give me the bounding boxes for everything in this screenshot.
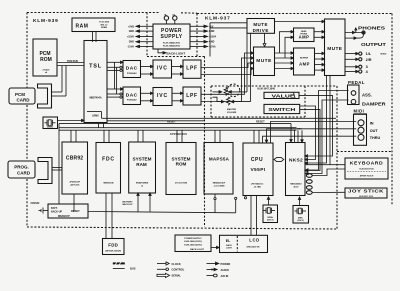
svg-text:CR2032: CR2032 (31, 202, 40, 205)
svg-text:LPF: LPF (186, 66, 198, 72)
svg-text:(OSC2): (OSC2) (297, 220, 304, 222)
svg-text:KLM-1616/17/18: KLM-1616/17/18 (359, 168, 373, 170)
svg-text:SUPPLY: SUPPLY (161, 34, 183, 40)
svg-text:ASS.: ASS. (362, 92, 372, 97)
svg-text:RESET: RESET (167, 119, 176, 123)
svg-text:M62021FP: M62021FP (58, 215, 70, 218)
svg-text:BACK-LIGHT: BACK-LIGHT (167, 51, 186, 55)
svg-text:TSL: TSL (89, 64, 102, 70)
svg-text:(OSC1): (OSC1) (267, 219, 274, 221)
svg-text:MB654205U: MB654205U (290, 183, 302, 186)
svg-text:POWER SUPPLY: POWER SUPPLY (184, 238, 202, 240)
svg-text:BACK-UP: BACK-UP (122, 203, 133, 206)
svg-text:MB87404A: MB87404A (89, 97, 101, 100)
svg-text:KEYBOARD: KEYBOARD (350, 160, 384, 165)
svg-text:MUTE: MUTE (253, 22, 268, 27)
svg-text:VALUE: VALUE (272, 93, 295, 98)
svg-text:-10-7EB: -10-7EB (253, 187, 261, 189)
svg-text:LRMX: LRMX (92, 114, 99, 117)
svg-text:KLM-1649 (220V): KLM-1649 (220V) (184, 243, 202, 246)
svg-text:MB89311B: MB89311B (103, 182, 114, 184)
svg-text:PCM69AU: PCM69AU (127, 98, 137, 101)
svg-text:PCM69AU: PCM69AU (127, 72, 137, 75)
svg-text:PCM: PCM (15, 92, 25, 97)
svg-text:AFTER TOUCH: AFTER TOUCH (360, 175, 374, 178)
svg-text:MB654201UF: MB654201UF (213, 182, 226, 185)
svg-text:CARD: CARD (17, 170, 31, 175)
svg-text:KLM-2011,1919: KLM-2011,1919 (359, 196, 373, 198)
svg-text:MAPS5A: MAPS5A (209, 157, 230, 162)
svg-text:KLM-1647,1648: KLM-1647,1648 (258, 88, 276, 91)
svg-text:uPD70433GC: uPD70433GC (251, 183, 264, 186)
svg-text:MUTE: MUTE (327, 46, 343, 52)
svg-text:KLM-937: KLM-937 (205, 15, 231, 21)
svg-text:BSL 12: BSL 12 (101, 24, 109, 26)
svg-text:GND: GND (209, 30, 215, 33)
svg-text:IN: IN (370, 121, 374, 125)
svg-text:ROM: ROM (176, 162, 187, 167)
svg-text:BUS: BUS (130, 267, 136, 271)
svg-text:KLM-1648 (120V): KLM-1648 (120V) (184, 240, 202, 243)
svg-text:PEDAL: PEDAL (348, 80, 365, 85)
svg-text:3: 3 (366, 65, 368, 69)
svg-text:GND: GND (129, 30, 135, 33)
svg-text:DMC50371N: DMC50371N (247, 246, 260, 248)
svg-text:+5VB: +5VB (128, 25, 134, 28)
svg-text:DAC: DAC (126, 92, 138, 98)
svg-text:POWER: POWER (221, 262, 231, 266)
svg-text:BACK-LIGHT: BACK-LIGHT (190, 248, 204, 251)
svg-text:BATTERY: BATTERY (122, 200, 133, 203)
svg-text:MASTER: MASTER (227, 108, 237, 111)
svg-text:KLM-1649(220V): KLM-1649(220V) (163, 45, 180, 48)
svg-text:2/R: 2/R (366, 58, 372, 62)
svg-text:PHONES: PHONES (358, 25, 385, 30)
svg-text:CPU: CPU (251, 157, 263, 163)
svg-text:-A078-306: -A078-306 (70, 184, 80, 187)
svg-text:-15VA: -15VA (127, 46, 134, 49)
svg-text:CBR92: CBR92 (66, 156, 83, 162)
svg-text:MIDI: MIDI (354, 109, 365, 114)
svg-text:MONO: MONO (381, 54, 387, 56)
svg-text:BACK: BACK (226, 244, 232, 247)
svg-text:27C101 ROM: 27C101 ROM (175, 183, 188, 185)
svg-text:RESET: RESET (256, 119, 265, 123)
svg-text:RESET: RESET (71, 209, 80, 213)
svg-text:AMP: AMP (299, 61, 310, 66)
svg-text:-G-101-BND: -G-101-BND (213, 186, 225, 188)
svg-text:AMP: AMP (299, 35, 310, 40)
svg-text:(MF355F-3290UF): (MF355F-3290UF) (105, 250, 121, 252)
svg-text:GND: GND (209, 41, 215, 44)
svg-text:1/L: 1/L (366, 52, 372, 56)
svg-text:LIGHT: LIGHT (226, 247, 233, 249)
svg-text:-15VA: -15VA (209, 46, 216, 49)
svg-text:OUTPUT: OUTPUT (361, 42, 386, 47)
svg-text:DAC: DAC (126, 66, 138, 72)
svg-text:NKS2: NKS2 (289, 158, 303, 164)
svg-text:IVC: IVC (157, 66, 168, 72)
svg-text:SRAM: SRAM (101, 26, 107, 29)
svg-text:CONTROL: CONTROL (172, 268, 185, 272)
svg-text:+15VA: +15VA (127, 36, 134, 39)
svg-text:+15VA: +15VA (209, 36, 216, 39)
svg-text:CLOCK: CLOCK (172, 262, 181, 266)
svg-text:CARD: CARD (17, 98, 31, 103)
svg-text:PROG.: PROG. (14, 165, 29, 170)
svg-text:20MHz: 20MHz (47, 127, 53, 129)
svg-text:SWITCH: SWITCH (268, 107, 296, 113)
svg-text:BUFFER: BUFFER (300, 58, 309, 60)
svg-text:LCD: LCD (249, 238, 259, 243)
svg-text:JOY STICK: JOY STICK (348, 189, 384, 194)
svg-text:SYSTEM: SYSTEM (133, 157, 152, 162)
svg-text:PCM BUS: PCM BUS (67, 60, 78, 63)
svg-text:LPF: LPF (186, 93, 198, 99)
svg-text:FDC: FDC (102, 157, 115, 163)
svg-text:IVC: IVC (157, 93, 168, 99)
svg-text:+5V: +5V (209, 25, 214, 28)
svg-text:SERIAL: SERIAL (172, 274, 182, 278)
svg-text:uPD65012F: uPD65012F (69, 182, 81, 184)
svg-text:KLM-1648(120V): KLM-1648(120V) (163, 42, 180, 45)
svg-text:THRU: THRU (370, 136, 381, 140)
svg-text:A/D IN: A/D IN (221, 274, 229, 278)
svg-text:POWER: POWER (161, 28, 182, 34)
svg-text:FDD: FDD (108, 242, 118, 247)
svg-text:MIDI: MIDI (297, 128, 302, 130)
svg-text:EL: EL (226, 239, 231, 243)
svg-text:AUDIO: AUDIO (221, 268, 229, 272)
svg-text:MUTE: MUTE (256, 58, 272, 64)
svg-text:RAM: RAM (76, 24, 89, 30)
svg-text:V55PI: V55PI (250, 167, 265, 173)
svg-text:GND: GND (129, 41, 135, 44)
svg-text:RAM: RAM (136, 162, 147, 167)
svg-text:40 47: 40 47 (293, 186, 299, 189)
svg-text:SRAM SRAM: SRAM SRAM (136, 182, 149, 185)
svg-text:VOLUME: VOLUME (227, 112, 237, 114)
svg-text:BACK-UP: BACK-UP (51, 210, 62, 213)
svg-text:ROM: ROM (40, 57, 52, 63)
svg-text:SYSTEM BUS: SYSTEM BUS (170, 132, 187, 136)
svg-text:DAMPER: DAMPER (362, 101, 386, 106)
svg-text:KLM-939: KLM-939 (33, 18, 59, 24)
svg-text:DRIVE: DRIVE (253, 28, 269, 33)
svg-text:OUT: OUT (370, 129, 379, 133)
svg-text:TC51 4256: TC51 4256 (99, 21, 110, 24)
